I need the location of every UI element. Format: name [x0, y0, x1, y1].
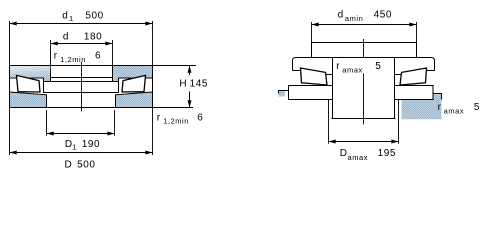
svg-text:1: 1 — [72, 142, 77, 151]
svg-text:1,2min: 1,2min — [163, 116, 189, 125]
svg-text:500: 500 — [85, 11, 103, 22]
left view: housing washer section left (blue) — [10, 92, 47, 108]
svg-text:5: 5 — [375, 61, 381, 72]
svg-text:d: d — [62, 11, 68, 22]
label da min 450 — [338, 10, 392, 24]
left view: roller left — [17, 75, 41, 92]
dimension H 145 — [153, 66, 197, 108]
dimension d 180 — [51, 40, 113, 66]
label Da max 195 — [340, 148, 396, 162]
right view: housing washer block left — [289, 86, 333, 100]
svg-text:180: 180 — [84, 31, 102, 42]
right view: housing rim left — [279, 91, 289, 94]
svg-text:6: 6 — [197, 112, 203, 123]
svg-text:450: 450 — [374, 10, 392, 21]
label r1,2min 6 top — [54, 51, 101, 64]
label D1 190 — [65, 139, 100, 151]
svg-text:amax: amax — [348, 153, 369, 162]
svg-text:r: r — [438, 102, 442, 113]
dimension D1 190 — [47, 110, 115, 136]
label d1 500 — [62, 11, 104, 23]
dimension da min 450 — [312, 22, 417, 43]
svg-text:amin: amin — [345, 14, 363, 23]
label r1,2min 6 bottom — [157, 112, 204, 125]
svg-text:1,2min: 1,2min — [60, 55, 86, 64]
svg-text:r: r — [157, 112, 161, 123]
right view: roller left — [301, 68, 328, 85]
right view: housing washer block right — [395, 86, 434, 100]
svg-text:amax: amax — [444, 107, 465, 116]
svg-text:H: H — [179, 78, 187, 89]
label ra max 5 right — [438, 102, 480, 116]
svg-text:amax: amax — [342, 65, 363, 74]
svg-text:d: d — [63, 31, 69, 42]
svg-text:D: D — [65, 160, 73, 171]
right view: housing section right (blue dotted) — [402, 94, 442, 119]
svg-text:6: 6 — [95, 51, 101, 62]
right view: housing rim right — [433, 94, 442, 100]
svg-text:D: D — [340, 148, 348, 159]
left view: roller row band — [44, 82, 119, 93]
label D 500 — [65, 160, 96, 171]
right view: center line — [363, 39, 365, 125]
left view: center line — [81, 62, 83, 112]
right view: roller right — [400, 68, 427, 85]
right view: shaft shoulder — [312, 43, 417, 58]
left view: bearing outline — [10, 66, 153, 108]
svg-text:500: 500 — [77, 160, 95, 171]
svg-text:5: 5 — [474, 102, 480, 113]
svg-text:195: 195 — [378, 148, 396, 159]
left view: roller right — [122, 75, 146, 92]
svg-text:r: r — [54, 51, 58, 62]
left view: shaft washer elevation bottom edge — [51, 77, 113, 79]
label H 145 — [179, 78, 208, 89]
svg-text:190: 190 — [82, 139, 100, 150]
right view: housing section left small (blue dotted) — [279, 91, 286, 97]
svg-text:1: 1 — [69, 14, 74, 23]
right view: shaft sides and end — [332, 58, 396, 119]
svg-text:r: r — [336, 61, 340, 72]
dimension d1 500 — [10, 21, 153, 66]
svg-text:145: 145 — [190, 78, 208, 89]
label d 180 — [63, 31, 102, 42]
dimension D 500 — [10, 108, 153, 156]
right view: shaft washer outline — [293, 58, 435, 71]
label ra max 5 middle — [336, 61, 381, 74]
svg-text:d: d — [338, 10, 344, 21]
dimension Da max 195 — [329, 100, 399, 144]
left view: housing washer section right (blue) — [116, 92, 153, 108]
left view: shaft washer section left (blue) — [10, 66, 51, 82]
left view: shaft washer section right (blue) — [113, 66, 153, 82]
